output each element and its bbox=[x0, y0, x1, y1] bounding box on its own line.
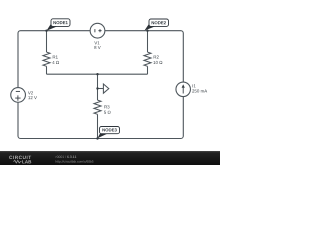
wire center column upper bbox=[97, 74, 99, 100]
NODE2 text bbox=[152, 21, 166, 24]
value 8 V bbox=[94, 46, 100, 49]
wire middle rail bbox=[47, 73, 148, 75]
NODE2 flag tail bbox=[145, 24, 156, 30]
value 4 ohm bbox=[52, 61, 59, 64]
footer logo zigzag bbox=[14, 160, 22, 163]
V2 plus sign bbox=[15, 95, 20, 100]
junction dot R2 top bbox=[146, 30, 148, 32]
value 10 ohm bbox=[153, 61, 162, 64]
resistor R3 bbox=[94, 100, 101, 114]
wire R1 top stub bbox=[46, 31, 48, 52]
wire center column lower bbox=[97, 114, 99, 138]
value 5 ohm bbox=[104, 111, 111, 114]
label V1 bbox=[94, 41, 99, 44]
wire outer loop (top, left, right, bottom rails) bbox=[18, 31, 183, 139]
output flag triangle bbox=[103, 84, 108, 93]
footer bar bbox=[0, 151, 220, 165]
resistor R2 bbox=[144, 52, 151, 66]
NODE3 flag box bbox=[100, 127, 120, 134]
footer url text bbox=[56, 160, 94, 163]
NODE3 flag tail bbox=[97, 132, 107, 139]
value 250 mA bbox=[192, 89, 207, 92]
wire flag stub bbox=[98, 88, 104, 90]
wire R2 top stub bbox=[147, 31, 149, 52]
NODE1 text bbox=[53, 21, 67, 24]
wire R1 bottom stub bbox=[46, 66, 48, 74]
wire R2 bottom stub bbox=[147, 66, 149, 74]
label V2 bbox=[28, 91, 33, 94]
footer logo CIRCUIT bbox=[9, 156, 31, 159]
I1 arrow head bbox=[182, 84, 185, 88]
V2 minus sign bbox=[16, 90, 20, 92]
resistor R1 bbox=[43, 52, 50, 66]
footer logo LAB bbox=[22, 160, 31, 163]
V1 plus sign bbox=[98, 29, 101, 32]
voltage source V2 bbox=[11, 88, 26, 103]
NODE2 flag box bbox=[149, 19, 169, 26]
value 12 V bbox=[28, 96, 37, 99]
footer version number bbox=[67, 156, 76, 158]
label R2 bbox=[154, 55, 159, 58]
I1 arrow shaft bbox=[182, 88, 184, 94]
junction dot middle rail bbox=[96, 73, 98, 75]
junction dot flag bbox=[96, 87, 98, 89]
NODE3 text bbox=[102, 128, 116, 131]
label I1 bbox=[193, 84, 196, 87]
voltage source V1 bbox=[90, 23, 105, 38]
junction dot node3 bbox=[96, 137, 98, 139]
footer version text bbox=[56, 156, 66, 158]
label R3 bbox=[104, 105, 109, 108]
NODE1 flag box bbox=[51, 19, 70, 27]
current source I1 bbox=[176, 82, 191, 97]
label R1 bbox=[53, 55, 58, 58]
V1 minus sign bbox=[94, 29, 96, 32]
junction dot R1 top bbox=[45, 30, 47, 32]
NODE1 flag tail bbox=[47, 24, 58, 30]
